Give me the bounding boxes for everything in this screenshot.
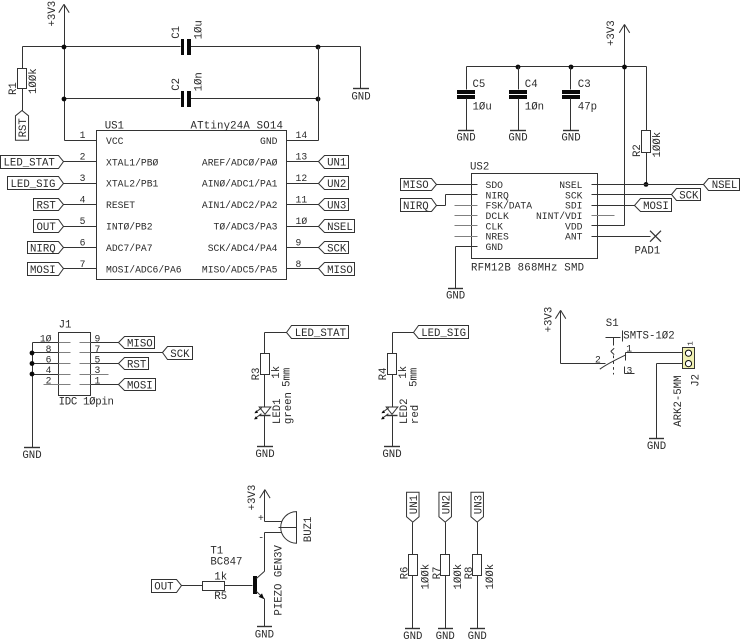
J1 internal pin stubs: [59, 343, 91, 385]
svg-text:5: 5: [80, 216, 86, 227]
junction bus/pin4: [30, 372, 35, 377]
ground GND (LED1): [255, 447, 274, 462]
wire SDI net: [592, 205, 635, 207]
US1 pin name labels: [106, 136, 278, 276]
net flag NIRQ (US2): [401, 199, 437, 213]
junction bus/pin8: [30, 351, 35, 356]
wire pin12 to UN2: [287, 183, 319, 185]
label LED2: [399, 398, 411, 424]
svg-text:SCK: SCK: [565, 190, 583, 201]
resistor R6: [409, 555, 418, 629]
svg-text:MOSI: MOSI: [643, 201, 669, 213]
value 47p (C3): [578, 101, 597, 113]
svg-text:NINT/VDI: NINT/VDI: [536, 211, 583, 222]
ground GND (R7): [436, 629, 455, 639]
svg-text:8: 8: [46, 344, 52, 355]
svg-text:GND: GND: [508, 133, 527, 145]
wire C2 rail y=99: [65, 98, 319, 100]
svg-text:RST: RST: [127, 359, 147, 371]
wire pin3 to LED_SIG: [64, 183, 97, 185]
power +3V3 supply symbol (BUZ1): [247, 485, 270, 511]
svg-text:R7: R7: [432, 567, 444, 580]
LED LED2: [381, 407, 398, 447]
svg-text:GND: GND: [436, 631, 455, 639]
wire +3V3 to buzzer plus: [265, 490, 282, 522]
net flag SCK (pin9): [319, 242, 349, 256]
value 10n (C2): [194, 72, 206, 91]
svg-text:R8: R8: [464, 567, 476, 580]
value 5mm (LED1): [282, 368, 294, 387]
svg-text:GND: GND: [403, 631, 422, 639]
svg-text:GND: GND: [647, 441, 666, 453]
resistor R4: [388, 354, 397, 407]
svg-text:NSEL: NSEL: [712, 180, 738, 192]
ground GND (C3): [561, 131, 580, 145]
label R4: [378, 368, 390, 381]
svg-text:NIRQ: NIRQ: [403, 201, 429, 213]
svg-text:GND: GND: [22, 450, 41, 462]
S1 pin 2 label: [595, 354, 601, 365]
svg-text:4: 4: [80, 195, 86, 206]
value 100k (R2): [652, 132, 664, 158]
svg-text:GND: GND: [260, 136, 278, 147]
net flag UN3 (pin11): [319, 199, 349, 213]
svg-text:S1: S1: [606, 318, 619, 330]
junction rail/+3V3: [622, 65, 627, 70]
svg-text:2: 2: [80, 152, 86, 163]
ground GND (LED2): [382, 447, 401, 462]
label C3: [578, 79, 591, 91]
wire pin6 to NIRQ: [64, 247, 97, 249]
svg-text:US1: US1: [105, 120, 124, 132]
connector J2 body: [683, 348, 695, 369]
S1 pin3 stub: [625, 367, 635, 374]
power +3V3 supply symbol (S1 section): [543, 307, 565, 333]
connector J1 body: [59, 319, 114, 408]
svg-text:5mm: 5mm: [409, 368, 421, 387]
svg-text:R2: R2: [632, 144, 644, 157]
svg-text:1: 1: [80, 130, 86, 141]
wire pin7 to MOSI: [64, 268, 97, 270]
resistor R1: [18, 47, 27, 111]
wire SCK net: [592, 194, 672, 196]
junction at +3V3/rail: [62, 45, 67, 50]
svg-text:SDI: SDI: [565, 201, 582, 212]
svg-text:-: -: [258, 532, 264, 543]
svg-text:11: 11: [296, 195, 308, 206]
junction R2/NSEL: [644, 182, 649, 187]
wire J1 pin10: [33, 342, 59, 344]
svg-text:GND: GND: [561, 133, 580, 145]
S1 pin 1 label: [626, 343, 632, 354]
wire pin4 to RST: [64, 204, 97, 206]
net flag OUT (pin5): [34, 220, 64, 234]
ground GND (J1): [22, 448, 41, 463]
svg-text:R1: R1: [8, 82, 20, 95]
svg-text:R6: R6: [399, 567, 411, 580]
svg-text:R4: R4: [378, 368, 390, 381]
svg-text:LED_STAT: LED_STAT: [4, 158, 56, 170]
svg-text:C3: C3: [578, 79, 591, 91]
svg-text:UN2: UN2: [327, 179, 346, 191]
svg-text:MISO: MISO: [403, 180, 429, 192]
wire rail to GND drop: [360, 47, 362, 89]
wire R5 to base: [225, 585, 253, 587]
pin stub J1 pin3: [91, 374, 109, 376]
wire UN3 to R8: [477, 523, 479, 555]
ground GND (C5): [456, 131, 475, 145]
svg-text:R3: R3: [251, 368, 263, 381]
wire pin9 to SCK: [287, 247, 319, 249]
svg-text:RST: RST: [18, 118, 30, 138]
label C2: [171, 78, 183, 91]
label R1: [8, 82, 20, 95]
wire VDD rail y=67: [467, 66, 647, 68]
value 100k (R1): [28, 68, 40, 94]
label J2: [691, 374, 703, 387]
value 10u (C5): [473, 101, 492, 113]
svg-text:3: 3: [627, 365, 633, 376]
resistor R2: [642, 67, 651, 185]
wire pin13 to UN1: [287, 161, 319, 163]
svg-text:LED_SIG: LED_SIG: [11, 179, 56, 191]
label C5: [473, 79, 486, 91]
value 10n (C4): [525, 101, 544, 113]
net flag OUT (driver): [152, 580, 182, 594]
wire SDO to MISO flag: [437, 184, 478, 186]
svg-text:VCC: VCC: [106, 136, 124, 147]
wire pin8 to MISO: [287, 268, 319, 270]
svg-text:GND: GND: [351, 91, 370, 103]
svg-text:ATtiny24A SO14: ATtiny24A SO14: [191, 120, 284, 132]
label C4: [525, 79, 538, 91]
wire OUT to R5: [182, 585, 203, 587]
net flag LED_SIG: [8, 177, 64, 192]
ground GND (top-left rail): [351, 89, 370, 104]
S1 pin 3 label: [627, 365, 633, 376]
svg-text:LED_SIG: LED_SIG: [421, 328, 466, 340]
buzzer BUZ1: [279, 512, 297, 544]
ground GND (T1): [255, 627, 274, 639]
wire +3V3 to S1 pin2: [561, 311, 606, 364]
net flag RST (pin4): [34, 199, 64, 213]
svg-text:+3V3: +3V3: [247, 485, 259, 511]
label buzzer plus: [258, 513, 264, 524]
value 10u (C1): [194, 20, 206, 39]
svg-text:MISO: MISO: [127, 338, 153, 350]
wire emitter to GND: [264, 599, 266, 627]
svg-text:UN1: UN1: [327, 158, 346, 170]
wire UN2 to R7: [445, 523, 447, 555]
svg-text:UN3: UN3: [327, 201, 346, 213]
svg-text:MISO/ADC5/PA5: MISO/ADC5/PA5: [202, 265, 278, 276]
radio module IC body US2 RFM12B: [470, 161, 598, 274]
svg-text:5mm: 5mm: [282, 368, 294, 387]
svg-text:1k: 1k: [214, 571, 227, 583]
wire +3V3 vertical to VDD: [624, 25, 626, 226]
svg-text:47p: 47p: [578, 101, 597, 113]
svg-text:NRES: NRES: [486, 232, 509, 243]
svg-text:GND: GND: [255, 629, 274, 639]
svg-text:7: 7: [95, 344, 101, 355]
ground GND (J2): [647, 439, 666, 453]
svg-text:green: green: [283, 392, 295, 424]
svg-text:RFM12B 868MHz SMD: RFM12B 868MHz SMD: [471, 262, 584, 274]
svg-text:BC847: BC847: [210, 556, 242, 568]
net flag SCK (US2): [672, 189, 701, 203]
net flag LED_STAT: [1, 156, 64, 170]
label BUZ1: [303, 517, 315, 543]
net flag MISO (pin8): [319, 263, 355, 277]
value green (LED1): [283, 392, 295, 424]
net flag UN2 (pull-down): [439, 492, 454, 522]
wire VCC rail y=47: [23, 46, 361, 48]
svg-text:CLK: CLK: [486, 221, 504, 232]
svg-text:AREF/ADCØ/PAØ: AREF/ADCØ/PAØ: [202, 157, 278, 168]
svg-text:AIN1/ADC2/PA2: AIN1/ADC2/PA2: [202, 200, 278, 211]
net flag UN1 (pin13): [319, 156, 349, 170]
pin stub NRES: [455, 236, 478, 238]
svg-text:+3V3: +3V3: [47, 1, 59, 27]
net flag LED_SIG: [414, 326, 469, 340]
svg-text:14: 14: [296, 130, 308, 141]
svg-text:LED2: LED2: [399, 398, 411, 424]
US1 pin number labels: [80, 130, 308, 270]
wire NSEL net: [592, 184, 704, 186]
value 100k (R6): [421, 564, 433, 590]
net flag MOSI (J1): [119, 379, 156, 393]
net flag NSEL (pin10): [319, 220, 355, 234]
wire pin11 to UN3: [287, 204, 319, 206]
svg-text:GND: GND: [255, 449, 274, 461]
svg-text:GND: GND: [456, 133, 475, 145]
label buzzer minus: [258, 532, 264, 543]
svg-text:SMTS-1Ø2: SMTS-1Ø2: [623, 330, 674, 342]
wire J1 pin7 to SCK: [91, 352, 163, 354]
svg-text:C2: C2: [171, 78, 183, 91]
svg-text:INTØ/PB2: INTØ/PB2: [106, 222, 153, 233]
svg-text:XTAL1/PBØ: XTAL1/PBØ: [106, 157, 159, 168]
wire J1 pin8: [33, 352, 59, 354]
capacitor C4: [509, 67, 527, 131]
net flag NSEL (US2): [704, 179, 740, 193]
svg-text:+3V3: +3V3: [543, 307, 555, 333]
svg-text:+: +: [258, 513, 264, 524]
wire J2 pin2 to GND: [657, 364, 686, 439]
wire J1 pin4: [33, 374, 59, 376]
capacitor C3: [562, 67, 580, 131]
svg-text:VDD: VDD: [565, 221, 583, 232]
wire VDD to +3V3: [592, 225, 625, 227]
resistor R7: [441, 555, 450, 629]
wire pin10 to NSEL: [287, 226, 319, 228]
pin stub CLK: [455, 225, 478, 227]
wire LED_SIG to R4: [393, 333, 414, 354]
svg-text:J1: J1: [59, 319, 72, 331]
value red (LED2): [410, 405, 422, 424]
svg-text:C1: C1: [171, 26, 183, 39]
net flag MOSI (US2 SDI): [635, 199, 672, 213]
net flag MISO (US2 SDO): [401, 179, 437, 193]
switch S1 symbol: [600, 318, 675, 375]
pin stub J1 pin2: [44, 384, 59, 386]
svg-text:PIEZO GEN3V: PIEZO GEN3V: [274, 544, 286, 615]
wire pin1 VCC: [65, 140, 97, 142]
net flag MISO (J1): [119, 337, 155, 351]
svg-text:MISO: MISO: [327, 265, 353, 277]
svg-text:NSEL: NSEL: [559, 180, 582, 191]
net flag LED_STAT: [287, 326, 349, 340]
value PIEZO GEN3V (BUZ1): [274, 544, 286, 615]
capacitor C5: [457, 67, 475, 131]
power +3V3 supply symbol (US2 section): [606, 20, 630, 46]
svg-text:SCK: SCK: [327, 243, 347, 255]
wire ANT to PAD1: [592, 236, 651, 238]
svg-text:1: 1: [687, 341, 695, 346]
wire US2 GND pin: [456, 247, 478, 289]
transistor T1 BC847: [210, 545, 264, 599]
svg-text:1ØØk: 1ØØk: [652, 132, 664, 158]
svg-text:NIRQ: NIRQ: [486, 190, 509, 201]
svg-text:RST: RST: [37, 201, 57, 213]
svg-text:OUT: OUT: [37, 222, 57, 234]
svg-text:TØ/ADC3/PA3: TØ/ADC3/PA3: [214, 222, 278, 233]
junction C2 rail left: [62, 97, 67, 102]
wire J1 pin1 to MOSI: [91, 384, 119, 386]
label R7: [432, 567, 444, 580]
svg-text:OUT: OUT: [154, 582, 174, 594]
svg-text:IDC 1Øpin: IDC 1Øpin: [59, 396, 114, 408]
svg-text:1ØØk: 1ØØk: [421, 564, 433, 590]
svg-text:ARK2-5MM: ARK2-5MM: [673, 375, 685, 426]
svg-text:GND: GND: [446, 290, 465, 302]
svg-text:SDO: SDO: [486, 180, 504, 191]
net flag SCK (J1): [163, 347, 193, 361]
wire J1 ground bus: [32, 343, 34, 448]
junction bus/pin6: [30, 361, 35, 366]
svg-text:12: 12: [296, 173, 308, 184]
svg-text:UN2: UN2: [442, 495, 454, 514]
svg-text:J2: J2: [691, 374, 703, 387]
svg-text:+3V3: +3V3: [606, 20, 618, 46]
capacitor C2: [181, 91, 191, 107]
svg-text:1ØØk: 1ØØk: [28, 68, 40, 94]
junction C2 rail right: [316, 97, 321, 102]
svg-text:ADC7/PA7: ADC7/PA7: [106, 243, 153, 254]
junction rail/C1 right: [316, 45, 321, 50]
op-amp-style IC body US1 ATtiny24A: [97, 120, 287, 279]
resistor R8: [473, 555, 482, 629]
svg-text:3: 3: [80, 173, 86, 184]
svg-text:XTAL2/PB1: XTAL2/PB1: [106, 179, 159, 190]
svg-text:6: 6: [80, 237, 86, 248]
wire LED_STAT to R3: [265, 333, 287, 354]
label R5: [214, 591, 227, 603]
svg-text:1Øn: 1Øn: [194, 72, 206, 91]
svg-text:R5: R5: [214, 591, 227, 603]
svg-text:red: red: [410, 405, 422, 424]
ground GND (US2): [446, 289, 465, 303]
svg-text:GND: GND: [382, 449, 401, 461]
svg-text:AINØ/ADC1/PA1: AINØ/ADC1/PA1: [202, 179, 278, 190]
value 1k (R5): [214, 571, 227, 583]
ground GND (C4): [508, 131, 527, 145]
svg-text:ANT: ANT: [565, 232, 583, 243]
value 100k (R8): [485, 564, 497, 590]
svg-text:GND: GND: [468, 631, 487, 639]
svg-text:UN3: UN3: [474, 495, 486, 514]
resistor R5: [203, 582, 225, 591]
svg-text:C5: C5: [473, 79, 486, 91]
J2 pin 1 label: [687, 341, 695, 346]
capacitor C1: [181, 39, 191, 55]
net flag MOSI (pin7): [28, 263, 64, 277]
net flag UN2 (pin12): [319, 177, 349, 192]
value 100k (R7): [453, 564, 465, 590]
svg-text:9: 9: [296, 237, 302, 248]
pin stub DCLK: [455, 215, 478, 217]
svg-text:RESET: RESET: [106, 200, 135, 211]
ground GND (R6): [403, 629, 422, 639]
label R6: [399, 567, 411, 580]
svg-text:MOSI/ADC6/PA6: MOSI/ADC6/PA6: [106, 265, 182, 276]
svg-text:LED1: LED1: [272, 398, 284, 424]
net flag UN1 (pull-down): [407, 492, 422, 522]
svg-text:MOSI: MOSI: [30, 265, 56, 277]
wire pin2 to LED_STAT: [64, 161, 97, 163]
label R3: [251, 368, 263, 381]
value 1k (R4): [398, 366, 410, 379]
power +3V3 supply symbol (US1 section): [47, 1, 69, 27]
svg-text:1Øu: 1Øu: [194, 20, 206, 39]
net flag NIRQ (pin6): [28, 242, 64, 256]
svg-text:BUZ1: BUZ1: [303, 517, 315, 543]
label LED1: [272, 398, 284, 424]
wire UN1 to R6: [412, 523, 414, 555]
US2 pin name labels: [486, 180, 583, 253]
pin stub FSK/DATA: [455, 205, 478, 207]
svg-text:DCLK: DCLK: [486, 211, 509, 222]
LED LED1: [254, 407, 271, 447]
wire right vertical to pin14: [287, 47, 319, 141]
svg-text:NSEL: NSEL: [327, 222, 353, 234]
svg-text:NIRQ: NIRQ: [30, 243, 56, 255]
label C1: [171, 26, 183, 39]
junction rail/C4: [516, 65, 521, 70]
svg-text:1ØØk: 1ØØk: [485, 564, 497, 590]
resistor R3: [261, 354, 270, 407]
svg-text:LED_STAT: LED_STAT: [295, 328, 347, 340]
net flag RST (J1): [119, 358, 149, 372]
wire J1 pin5 to RST: [91, 363, 119, 365]
svg-text:1Ø: 1Ø: [296, 216, 308, 227]
svg-text:SCK/ADC4/PA4: SCK/ADC4/PA4: [208, 243, 278, 254]
svg-text:PAD1: PAD1: [635, 245, 661, 257]
value 5mm (LED2): [409, 368, 421, 387]
wire +3V3 vertical to VCC: [64, 5, 66, 141]
svg-text:1Øn: 1Øn: [525, 101, 544, 113]
label R8: [464, 567, 476, 580]
svg-text:1Øu: 1Øu: [473, 101, 492, 113]
wire NIRQ jog: [437, 195, 478, 206]
wire collector to buzzer: [265, 533, 282, 572]
net flag UN3 (pull-down): [471, 492, 486, 522]
pin stub NINT/VDI: [592, 215, 615, 217]
svg-text:SCK: SCK: [679, 191, 699, 203]
wire J1 pin9 to MISO: [91, 342, 119, 344]
svg-text:13: 13: [296, 152, 308, 163]
wire pin5 to OUT: [64, 226, 97, 228]
